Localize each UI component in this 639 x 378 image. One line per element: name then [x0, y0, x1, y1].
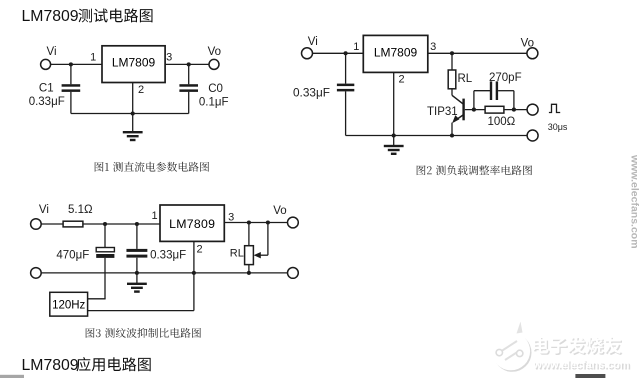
node junction wiper riser [266, 220, 270, 224]
watermark: elecfans logo (embossed) [492, 322, 532, 372]
node Vo (circuit 3 output terminal) [273, 205, 298, 228]
op-amp U2: LM7809 regulator box (circuit 2) [363, 35, 428, 72]
node pin2/rail junction [131, 111, 135, 115]
ground (circuit 1) [123, 131, 143, 141]
wire Vi to U1 pin1 [51, 63, 102, 65]
svg-text:0.33μF: 0.33μF [293, 86, 330, 100]
svg-text:3: 3 [166, 51, 172, 63]
ground (circuit 2) [384, 145, 404, 155]
node 0.33uF/rail junction [135, 271, 139, 275]
svg-text:C0: C0 [208, 83, 223, 95]
node bottom-left terminal (circuit 3) [31, 268, 42, 279]
node Vo (circuit 1 output terminal) [208, 46, 221, 69]
generator G1: 120Hz source box [50, 292, 88, 316]
svg-text:1: 1 [353, 41, 359, 53]
svg-text:470μF: 470μF [56, 250, 89, 262]
svg-text:2: 2 [138, 84, 144, 96]
node pulse input terminal [527, 104, 538, 115]
svg-text:LM7809: LM7809 [112, 56, 156, 70]
watermark text: dianzifashaoyou (embossed) [533, 337, 623, 356]
node junction C1/input [69, 62, 73, 66]
node Vi (circuit 2 input terminal) [302, 36, 318, 59]
caption: fig.2 load regulation test circuit [417, 165, 532, 175]
svg-text:120Hz: 120Hz [52, 300, 85, 312]
capacitor 0.33uF (circuit 2) [337, 53, 354, 135]
svg-text:0.33μF: 0.33μF [29, 96, 65, 108]
svg-text:Vo: Vo [208, 46, 221, 58]
wire bottom rail (circuit 3) [41, 272, 287, 274]
wire U3 pin3 to Vo [224, 222, 287, 224]
capacitor C0 0.1uF (circuit 1) [179, 64, 198, 113]
node junction 0.33uF (circuit 3) [135, 222, 139, 226]
node Vi (circuit 3 input terminal) [31, 204, 49, 229]
node bottom-right terminal (circuit 3) [288, 268, 299, 279]
wire 100ohm to pulse terminal [504, 109, 527, 111]
node junction input cap (circuit 2) [344, 51, 348, 55]
resistor R1 5.1 ohm (circuit 3) [63, 221, 83, 227]
node junction 470uF [103, 222, 107, 226]
svg-text:Vi: Vi [308, 36, 318, 48]
capacitor 470uF electrolytic (circuit 3) [96, 224, 114, 299]
capacitor 0.33uF (circuit 3) [126, 224, 147, 273]
wire U1 pin3 to Vo [165, 63, 209, 65]
svg-text:100Ω: 100Ω [488, 116, 516, 128]
svg-text:2: 2 [398, 73, 404, 85]
node RL bottom junction [247, 271, 251, 275]
capacitor C1 0.33uF (circuit 1) [62, 64, 81, 113]
caption: fig.1 DC parameter test circuit [95, 162, 209, 172]
node Vi (circuit 1 input terminal) [41, 46, 57, 69]
svg-text:TIP31: TIP31 [427, 106, 458, 118]
node junction C0/output [187, 62, 191, 66]
svg-text:Vi: Vi [39, 204, 49, 216]
svg-text:Vo: Vo [273, 205, 286, 217]
svg-text:5.1Ω: 5.1Ω [68, 204, 93, 216]
node junction RL top [450, 51, 454, 55]
svg-text:Vo: Vo [521, 38, 534, 50]
svg-text:2: 2 [196, 244, 202, 256]
wire Vi to U2 pin1 [313, 52, 364, 54]
wire base of Q1 to network [465, 109, 485, 111]
wire U2 pin3 to Vo [428, 52, 527, 54]
svg-text:LM7809: LM7809 [22, 357, 79, 374]
wire generator to 470uF branch [88, 298, 106, 300]
resistor RL (circuit 2) [448, 53, 456, 95]
caption: fig.3 ripple rejection test circuit [86, 328, 201, 338]
wire U1 pin2 to ground rail [132, 83, 134, 133]
node bottom-right terminal (circuit 2) [527, 130, 538, 141]
decorative bottom-left bar [0, 375, 24, 378]
title: LM7809 application circuit diagram [22, 357, 151, 374]
svg-text:Vi: Vi [47, 46, 57, 58]
node junction RL top (circuit 3) [247, 220, 251, 224]
svg-text:0.1μF: 0.1μF [199, 97, 229, 109]
svg-text:30μs: 30μs [548, 122, 568, 132]
watermark text: www.elecfans.com (embossed) [532, 359, 631, 372]
node pin2/rail junction (circuit 2) [392, 133, 396, 137]
wire U3 pin2 down to signal return [193, 241, 195, 310]
wire signal return to generator [88, 310, 194, 312]
node right junction [512, 108, 516, 112]
wire R1 to U3 pin1 [83, 223, 160, 225]
wiper arrow of RL [254, 223, 268, 259]
decorative bottom-right bar [575, 374, 605, 378]
wire bottom rail (circuit 2) [346, 135, 527, 137]
capacitor 270pF (circuit 2) [474, 81, 514, 110]
wire U2 pin2 to ground [393, 72, 395, 145]
svg-text:www.elecfans.com: www.elecfans.com [532, 359, 629, 371]
potentiometer RL (circuit 3) [245, 223, 254, 273]
node pin2/rail junction (circuit 3) [192, 271, 196, 275]
svg-text:LM7809: LM7809 [169, 217, 215, 231]
ground (circuit 3) [127, 273, 147, 293]
wire Vi to R1 [41, 223, 63, 225]
node Vo (circuit 2 output terminal) [521, 38, 538, 59]
svg-text:LM7809: LM7809 [22, 8, 79, 25]
node base junction left [472, 108, 476, 112]
svg-text:270pF: 270pF [489, 72, 522, 84]
node emitter/rail junction [450, 133, 454, 137]
op-amp U1: LM7809 regulator box (circuit 1) [102, 46, 165, 83]
op-amp U3: LM7809 regulator box (circuit 3) [160, 205, 224, 241]
transistor Q1 TIP31 [452, 95, 465, 135]
wire bottom rail (circuit 1) [71, 113, 189, 115]
svg-text:1: 1 [90, 51, 96, 63]
svg-text:RL: RL [458, 73, 473, 85]
svg-text:www.elecfans.com: www.elecfans.com [629, 154, 639, 249]
svg-text:C1: C1 [39, 83, 54, 95]
resistor 100 ohm (circuit 2) [485, 106, 504, 113]
svg-text:LM7809: LM7809 [374, 45, 418, 59]
svg-text:0.33μF: 0.33μF [150, 250, 186, 262]
svg-text:RL: RL [230, 248, 244, 260]
pulse waveform symbol [549, 104, 560, 112]
title: LM7809 test circuit diagram [22, 8, 153, 25]
svg-text:1: 1 [151, 210, 157, 222]
svg-text:3: 3 [430, 41, 436, 53]
